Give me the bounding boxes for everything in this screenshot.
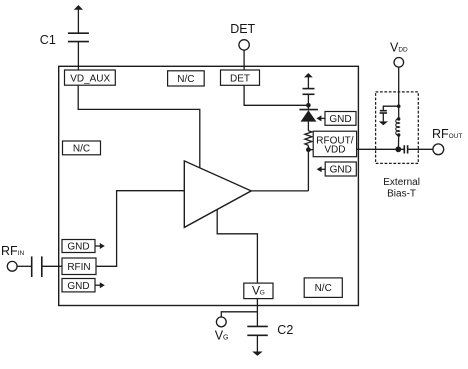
svg-text:GND: GND [67,281,89,292]
svg-text:C2: C2 [277,323,293,337]
svg-text:DET: DET [230,22,255,36]
svg-text:VD_AUX: VD_AUX [70,73,110,84]
svg-text:VG: VG [215,329,229,343]
svg-text:VDD: VDD [324,145,345,156]
svg-text:N/C: N/C [315,283,332,294]
svg-text:RFIN: RFIN [67,262,90,273]
svg-text:GND: GND [330,165,352,176]
svg-text:GND: GND [329,114,351,125]
svg-text:RFOUT: RFOUT [432,127,462,141]
svg-text:RFIN: RFIN [1,244,24,258]
svg-text:GND: GND [67,242,89,253]
svg-text:N/C: N/C [177,74,194,85]
svg-text:G: G [260,289,265,296]
svg-text:VDD: VDD [390,41,408,55]
svg-text:Bias-T: Bias-T [387,189,416,200]
svg-text:N/C: N/C [73,144,90,155]
svg-text:DET: DET [230,73,250,84]
svg-text:External: External [383,177,420,188]
svg-text:C1: C1 [40,33,56,47]
